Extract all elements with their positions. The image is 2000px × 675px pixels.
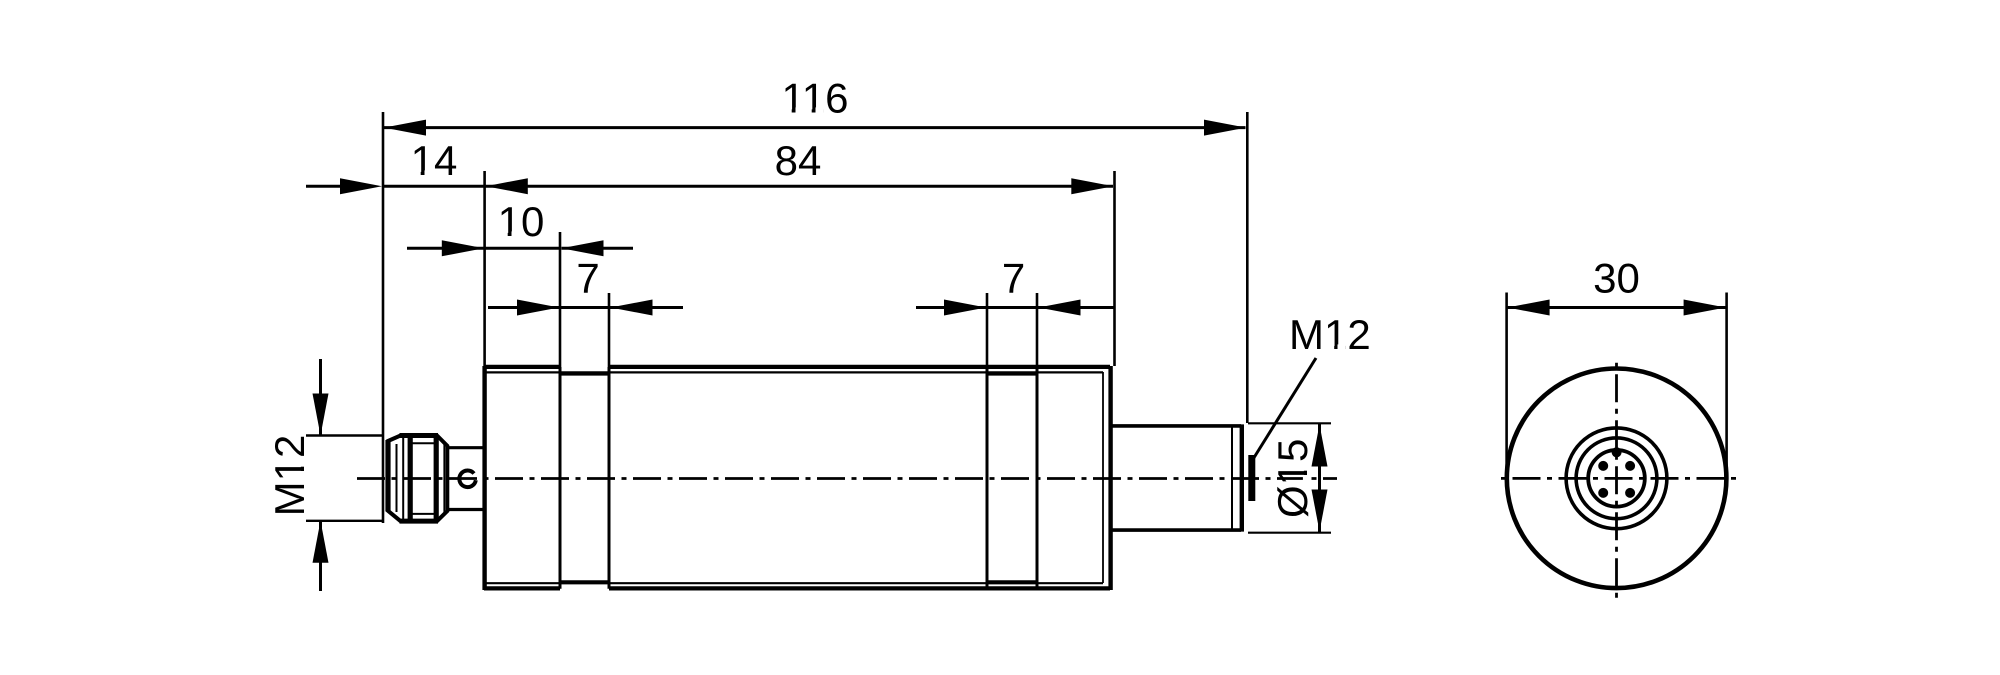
pin 5 top xyxy=(1612,447,1622,457)
M12 connector nut octagon xyxy=(388,436,447,522)
groove bottom left xyxy=(559,580,611,584)
nut inner line right xyxy=(443,441,445,515)
svg-text:116: 116 xyxy=(782,74,849,121)
M12 leader line xyxy=(1253,358,1317,460)
dim 10 line xyxy=(407,247,560,250)
svg-text:14: 14 xyxy=(411,137,458,184)
svg-text:7: 7 xyxy=(1002,255,1025,302)
ext line right x1246 xyxy=(1246,112,1249,423)
body thread crest bottom line xyxy=(484,586,1110,590)
end view outer circle xyxy=(1507,369,1727,589)
end view connector circle 1 xyxy=(1566,428,1667,529)
right stub bottom xyxy=(1111,528,1241,532)
nut top flat overdraw xyxy=(400,433,439,438)
dim 116 left arrow xyxy=(384,120,426,136)
side view centerline xyxy=(357,477,1337,480)
ext line 30 right xyxy=(1725,293,1728,477)
ext line left x383 xyxy=(382,112,385,523)
groove top recess left xyxy=(559,372,611,376)
M12 left ext top xyxy=(306,434,384,436)
nut knurl band left xyxy=(408,436,413,522)
dia15 ext top xyxy=(1248,422,1331,424)
end view horizontal centerline xyxy=(1498,477,1737,480)
M12 left dim vertical line bottom xyxy=(319,521,322,591)
ext line x987 upper xyxy=(986,293,989,367)
dim 7 left line xyxy=(488,306,560,309)
end view connector circle 3 xyxy=(1588,450,1645,507)
body thread root bottom line xyxy=(484,582,1103,584)
ext line x560 upper xyxy=(559,232,562,367)
right groove wall 1 xyxy=(986,367,989,589)
nut knurl band right xyxy=(434,436,439,522)
right stub top xyxy=(1111,424,1241,428)
dim 7 right line xyxy=(916,306,987,309)
nut left edge overdraw xyxy=(385,440,390,512)
stub chamfer thin line xyxy=(1231,426,1233,530)
font foot patches to mimic Arial-style "1" xyxy=(300,107,1345,483)
nut band bottom edge xyxy=(410,513,437,515)
ext line x1037 upper xyxy=(1036,293,1039,367)
dim 84 line xyxy=(383,185,1113,188)
dim 84 left arrow xyxy=(486,178,528,194)
locating pin circle xyxy=(459,471,475,488)
dia15 ext bottom xyxy=(1248,532,1331,534)
dim 84 right arrow xyxy=(1071,178,1113,194)
ext line 30 left xyxy=(1505,293,1508,477)
M12 thread mark bar xyxy=(1248,455,1255,501)
svg-text:84: 84 xyxy=(775,137,822,184)
M12 left ext bottom xyxy=(306,520,384,522)
dim 116 right arrow xyxy=(1204,120,1246,136)
thread runout thin line right xyxy=(1102,372,1104,583)
pin 3 xyxy=(1598,488,1608,498)
ext line 84 right xyxy=(1113,171,1116,366)
pin 2 xyxy=(1625,461,1635,471)
body right end face xyxy=(1108,366,1112,590)
pin 4 xyxy=(1625,488,1635,498)
nut bottom flat overdraw xyxy=(400,519,439,524)
svg-text:Ø15: Ø15 xyxy=(1269,439,1316,518)
right groove wall 2 xyxy=(1036,367,1039,589)
end view connector circle 2 xyxy=(1576,438,1657,519)
dim 116 line xyxy=(383,126,1246,129)
left groove wall 2 xyxy=(608,367,611,589)
dia15 dim line xyxy=(1318,423,1321,532)
groove bottom right xyxy=(986,580,1039,584)
svg-text:30: 30 xyxy=(1593,255,1640,302)
ext line x609 upper xyxy=(608,293,611,367)
body left end face xyxy=(482,366,486,590)
nut band top edge xyxy=(410,442,437,444)
svg-text:7: 7 xyxy=(576,255,599,302)
svg-text:10: 10 xyxy=(498,198,545,245)
nut knurl line a xyxy=(396,444,398,512)
pin 1 xyxy=(1598,461,1608,471)
body thread crest top line xyxy=(484,365,1110,369)
nut knurl line b xyxy=(402,437,404,521)
dim 14 tail and arrow xyxy=(306,185,340,188)
M12 left dim vertical line top xyxy=(319,359,322,435)
groove top recess right xyxy=(986,372,1039,376)
dim 30 line xyxy=(1507,306,1727,309)
svg-text:M12: M12 xyxy=(266,435,313,517)
stub end face xyxy=(1240,424,1244,531)
body thread root top line xyxy=(484,371,1103,373)
end view vertical centerline xyxy=(1615,358,1618,599)
left groove wall 1 xyxy=(559,367,562,589)
connector nose top xyxy=(447,446,484,449)
svg-text:M12: M12 xyxy=(1289,311,1371,358)
ext line 84/10 left x484 xyxy=(483,171,486,366)
connector nose bottom xyxy=(447,508,484,511)
